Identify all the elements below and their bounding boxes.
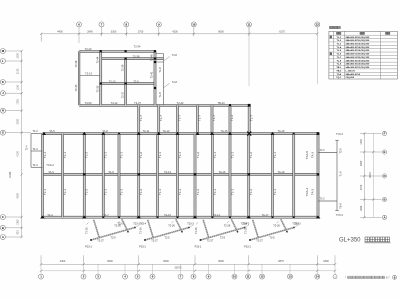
- small left room T2-3: [30, 134, 32, 168]
- svg-text:T2-5: T2-5: [110, 237, 116, 240]
- svg-text:TL-2: TL-2: [249, 189, 253, 195]
- svg-text:T2-5: T2-5: [220, 237, 226, 240]
- svg-text:3300: 3300: [111, 31, 117, 34]
- svg-text:T2-9: T2-9: [133, 79, 139, 83]
- svg-text:T23-3: T23-3: [292, 222, 299, 225]
- svg-text:8440: 8440: [369, 172, 372, 178]
- svg-text:T2-41: T2-41: [150, 71, 154, 78]
- svg-text:B: B: [2, 226, 4, 230]
- schedule table group labels: [330, 36, 332, 38]
- svg-text:TL-1: TL-1: [104, 189, 108, 195]
- top axis line down to plan (axis 11): [248, 27, 250, 86]
- bottom dimension line: [41, 263, 335, 265]
- svg-text:TL-2: TL-2: [139, 189, 143, 195]
- svg-text:TL-1: TL-1: [43, 189, 47, 195]
- svg-text:TL-1: TL-1: [158, 189, 162, 195]
- svg-text:TA-7: TA-7: [103, 213, 109, 217]
- svg-text:4100: 4100: [17, 151, 20, 157]
- svg-text:TL-1: TL-1: [119, 189, 123, 195]
- svg-text:TB-43: TB-43: [217, 101, 225, 105]
- svg-text:1750: 1750: [17, 99, 20, 105]
- svg-text:T3-12: T3-12: [111, 101, 118, 105]
- left axis grid circles: [0, 49, 5, 54]
- svg-text:TL-2: TL-2: [85, 189, 89, 195]
- svg-text:10: 10: [192, 22, 196, 26]
- main block top edge column blobs: [42, 132, 46, 135]
- svg-text:6600: 6600: [107, 260, 113, 263]
- svg-text:TA-15: TA-15: [221, 129, 228, 133]
- svg-text:TA-6: TA-6: [48, 170, 54, 174]
- svg-text:T2-45: T2-45: [74, 84, 78, 91]
- svg-text:TL-1: TL-1: [178, 152, 182, 158]
- bottom edge column blobs: [40, 216, 45, 219]
- svg-text:T3-37: T3-37: [134, 101, 141, 105]
- svg-text:2640: 2640: [87, 31, 93, 34]
- svg-text:T2-10: T2-10: [109, 79, 116, 83]
- svg-text:TA-5: TA-5: [49, 129, 55, 133]
- svg-text:240x500 6C18;C8@150: 240x500 6C18;C8@150: [346, 53, 370, 56]
- svg-text:240x400 4C14;C8@200: 240x400 4C14;C8@200: [346, 49, 370, 52]
- svg-text:T2-44: T2-44: [96, 56, 100, 63]
- svg-text:TL-9: TL-9: [336, 64, 341, 66]
- svg-text:TCA-4: TCA-4: [305, 187, 309, 196]
- title underline: [365, 242, 391, 244]
- svg-text:TA-3: TA-3: [311, 152, 315, 158]
- svg-text:TL-8: TL-8: [336, 60, 341, 62]
- svg-text:T2-37: T2-37: [120, 91, 124, 98]
- svg-text:TL-1: TL-1: [230, 152, 234, 158]
- schedule table title: [330, 26, 341, 29]
- svg-text:TL-7: TL-7: [178, 115, 182, 121]
- svg-text:T2-26: T2-26: [114, 225, 121, 228]
- main block mid beam TA-6/TA-9/TA-13: [43, 173, 319, 175]
- svg-text:TC5-3: TC5-3: [336, 214, 343, 217]
- svg-text:T2-28: T2-28: [86, 227, 89, 234]
- svg-text:TL-3: TL-3: [336, 43, 341, 45]
- svg-text:4300: 4300: [17, 193, 20, 199]
- svg-text:TL-4: TL-4: [336, 46, 341, 49]
- svg-text:T2-39: T2-39: [120, 64, 124, 71]
- svg-text:14: 14: [316, 275, 320, 279]
- svg-text:TL-1: TL-1: [230, 189, 234, 195]
- column line TL at x=100.7: [100, 51, 102, 105]
- svg-text:TA-17: TA-17: [262, 213, 269, 217]
- svg-text:TL-2: TL-2: [230, 115, 234, 121]
- svg-text:10: 10: [233, 275, 237, 279]
- svg-text:TCA: TCA: [337, 73, 342, 76]
- svg-text:T2-28: T2-28: [140, 227, 143, 234]
- svg-text:TL-2: TL-2: [139, 152, 143, 158]
- svg-text:TA-19: TA-19: [278, 170, 285, 174]
- svg-text:D: D: [383, 174, 385, 178]
- mid beam column blobs: [83, 173, 85, 175]
- main block top right corner column: [317, 132, 320, 135]
- upper block left wall beam: [78, 51, 80, 105]
- svg-text:TL-1: TL-1: [336, 37, 341, 39]
- svg-text:T2-40: T2-40: [150, 54, 154, 61]
- svg-text:6600: 6600: [218, 31, 224, 34]
- svg-text:4400: 4400: [57, 31, 63, 34]
- svg-text:T2-27: T2-27: [256, 240, 263, 243]
- svg-text:6-7: 6-7: [386, 276, 390, 279]
- svg-text:TL-8: TL-8: [158, 92, 162, 98]
- svg-text:TB-9: TB-9: [340, 203, 343, 209]
- svg-text:240x400 4C14;C8@200: 240x400 4C14;C8@200: [346, 63, 370, 66]
- svg-text:T23-3: T23-3: [133, 222, 140, 225]
- svg-text:T2-42: T2-42: [177, 101, 184, 105]
- svg-text:TL-1: TL-1: [213, 189, 217, 195]
- ramp group at x=91: [91, 228, 135, 241]
- svg-text:TC5-4: TC5-4: [336, 133, 343, 136]
- svg-text:TL-2: TL-2: [196, 189, 200, 195]
- main block left edge beam: [42, 134, 44, 218]
- svg-text:12: 12: [260, 275, 264, 279]
- svg-text:33075: 33075: [175, 267, 183, 270]
- beam T2-10 / T2-9: [101, 83, 155, 85]
- svg-text:240x400 4C14;C8@200: 240x400 4C14;C8@200: [346, 42, 370, 45]
- svg-text:6175: 6175: [279, 31, 285, 34]
- ramp group at x=145: [145, 228, 189, 241]
- svg-text:E: E: [384, 150, 386, 154]
- svg-text:6600: 6600: [163, 260, 169, 263]
- svg-text:2200: 2200: [17, 118, 20, 124]
- svg-text:TL-7: TL-7: [212, 115, 216, 121]
- top axis tick at leftmost grid: [40, 34, 42, 42]
- svg-text:T2-5: T2-5: [269, 237, 275, 240]
- svg-text:T2-5: T2-5: [164, 237, 170, 240]
- svg-text:2700: 2700: [138, 31, 144, 34]
- svg-text:P23-1: P23-1: [139, 246, 146, 249]
- svg-text:TL-1: TL-1: [178, 189, 182, 195]
- svg-text:TL-8: TL-8: [158, 67, 162, 73]
- beam T2-43/T2-34 upper block top edge: [79, 50, 156, 52]
- svg-text:T2-8: T2-8: [172, 54, 178, 57]
- svg-text:TL-1: TL-1: [273, 152, 277, 158]
- svg-text:240x300 4C12;C6@200: 240x300 4C12;C6@200: [346, 66, 370, 69]
- svg-text:1730: 1730: [360, 139, 363, 145]
- svg-text:TL-7: TL-7: [249, 115, 253, 121]
- svg-text:TA-13: TA-13: [164, 170, 171, 174]
- svg-text:TL-2: TL-2: [85, 152, 89, 158]
- bottom extra axis circle 1-1: [334, 264, 336, 274]
- svg-text:11000: 11000: [9, 171, 12, 178]
- svg-text:T2-28: T2-28: [195, 227, 198, 234]
- svg-text:T2-27: T2-27: [207, 240, 214, 243]
- svg-text:240x500 4C16;C8@200: 240x500 4C16;C8@200: [346, 36, 370, 39]
- upper block column blobs: [100, 50, 102, 52]
- svg-text:TB-1: TB-1: [336, 67, 342, 69]
- svg-text:TL-2: TL-2: [196, 152, 200, 158]
- svg-text:T23-3: T23-3: [187, 222, 194, 225]
- svg-text:TL-6: TL-6: [336, 54, 341, 56]
- right axis grid circles: [382, 131, 386, 135]
- svg-text:T2-26: T2-26: [224, 225, 231, 228]
- svg-text:T2-28: T2-28: [245, 227, 248, 234]
- svg-text:GL+350: GL+350: [339, 238, 361, 244]
- top axis grid circles: [77, 22, 82, 27]
- top axis line down (axis 12): [316, 27, 318, 84]
- main block interior vertical beams TL-1/TL-2: [62, 134, 64, 218]
- svg-text:TL-7: TL-7: [139, 115, 143, 121]
- connector vertical beams between upper block and main block: [138, 105, 140, 133]
- svg-text:B: B: [383, 198, 385, 202]
- svg-text:T2-34: T2-34: [134, 45, 141, 49]
- svg-text:TA-16: TA-16: [278, 129, 285, 133]
- left axis vertical dimension line: [21, 51, 23, 237]
- stair landing lines: [155, 53, 164, 55]
- svg-text:11: 11: [246, 275, 249, 279]
- svg-text:T2-4: T2-4: [26, 145, 29, 151]
- svg-text:T2-13: T2-13: [85, 72, 92, 76]
- svg-text:F: F: [384, 131, 386, 135]
- main block right edge beam: [317, 134, 319, 218]
- svg-text:T2-43: T2-43: [85, 47, 92, 51]
- svg-text:TL-1: TL-1: [104, 152, 108, 158]
- svg-text:920: 920: [17, 230, 20, 235]
- svg-text:T2-2: T2-2: [32, 129, 38, 133]
- right appendage rooms T2-3: [336, 140, 338, 210]
- right overall dimension line and text: [372, 133, 374, 217]
- svg-text:P23-1: P23-1: [195, 246, 202, 249]
- bottom overall dimension line: [41, 270, 335, 272]
- svg-text:TA-10: TA-10: [164, 213, 171, 217]
- svg-text:TA-11: TA-11: [143, 129, 150, 133]
- svg-text:TL-1: TL-1: [273, 189, 277, 195]
- svg-text:240x400 4C14;C8@200: 240x400 4C14;C8@200: [346, 46, 370, 49]
- svg-text:P23-1: P23-1: [244, 246, 251, 249]
- svg-text:TA-9: TA-9: [108, 170, 114, 174]
- beam T3-50/T3-12/T3-37/T2-42/TB-43 long bottom beam of upper block: [79, 104, 249, 106]
- svg-text:TL-1: TL-1: [63, 189, 67, 195]
- svg-text:TL-7: TL-7: [336, 57, 341, 59]
- svg-text:C8@200: C8@200: [346, 77, 355, 79]
- svg-text:2100: 2100: [17, 68, 20, 74]
- svg-text:TL-1: TL-1: [43, 152, 47, 158]
- svg-text:TA-4: TA-4: [47, 213, 53, 217]
- svg-text:TL-2: TL-2: [336, 40, 341, 42]
- svg-text:4400: 4400: [60, 260, 66, 263]
- svg-text:1000: 1000: [17, 53, 20, 59]
- svg-text:240x500 4C16;C8@200: 240x500 4C16;C8@200: [346, 39, 370, 42]
- svg-text:1080: 1080: [17, 219, 20, 225]
- column line at x=125.6: [125, 59, 127, 106]
- svg-text:TL-1: TL-1: [63, 152, 67, 158]
- svg-text:TB-2: TB-2: [336, 70, 342, 72]
- svg-text:T2-38: T2-38: [133, 54, 140, 58]
- svg-text:TL-6: TL-6: [340, 171, 343, 177]
- svg-text:TCA-3: TCA-3: [46, 163, 54, 167]
- svg-text:TA-16: TA-16: [219, 170, 226, 174]
- svg-text:T2-36: T2-36: [74, 60, 78, 67]
- svg-text:TL-1: TL-1: [119, 152, 123, 158]
- axis 11 big column node: [247, 132, 251, 136]
- svg-text:T2-3: T2-3: [32, 147, 38, 151]
- schedule table row lines: [329, 34, 398, 36]
- svg-text:L-150x10: L-150x10: [346, 70, 356, 72]
- svg-text:1800: 1800: [323, 260, 329, 263]
- svg-text:T2-26: T2-26: [273, 225, 280, 228]
- ramp group at x=200.5: [201, 228, 245, 241]
- svg-text:240x400 4C14;C8@200: 240x400 4C14;C8@200: [346, 59, 370, 62]
- main block bottom edge beam TA-4..TA-17: [43, 216, 319, 218]
- svg-text:TL-5: TL-5: [336, 50, 341, 52]
- svg-text:T2-9: T2-9: [340, 148, 343, 154]
- svg-text:TL-1: TL-1: [158, 152, 162, 158]
- svg-text:L: L: [2, 59, 4, 63]
- schedule table header: [337, 32, 341, 34]
- top dimension line: [41, 33, 317, 35]
- svg-text:T2-8: T2-8: [172, 81, 178, 84]
- svg-text:1600: 1600: [360, 205, 363, 211]
- svg-text:TL-2: TL-2: [249, 152, 253, 158]
- bottom axis grid circles: [40, 264, 42, 274]
- svg-text:T2-27: T2-27: [97, 240, 104, 243]
- svg-text:11: 11: [247, 22, 250, 26]
- svg-text:2390: 2390: [360, 160, 363, 166]
- svg-text:T2-35: T2-35: [96, 85, 100, 92]
- svg-text:2720: 2720: [360, 184, 363, 190]
- svg-text:T2-3: T2-3: [320, 197, 326, 200]
- thin wall x=163.5: [163, 54, 165, 106]
- svg-text:4200: 4200: [172, 31, 178, 34]
- svg-text:TL-1: TL-1: [213, 152, 217, 158]
- svg-text:TQ-1: TQ-1: [336, 77, 342, 79]
- beam T2-13 partition: [79, 75, 101, 77]
- svg-text:240x500 6C18;C8@150: 240x500 6C18;C8@150: [346, 56, 370, 59]
- svg-text:P23-1: P23-1: [85, 246, 92, 249]
- svg-text:TA-14: TA-14: [213, 213, 220, 217]
- svg-text:T2-3: T2-3: [32, 163, 38, 167]
- svg-text:240x400 4C14: 240x400 4C14: [346, 73, 361, 76]
- main block top edge beam TA-5..TA-16: [43, 133, 319, 135]
- svg-text:1150: 1150: [17, 84, 20, 90]
- svg-text:T2-3: T2-3: [320, 149, 326, 152]
- schedule table column lines: [332, 31, 334, 79]
- svg-text:T2-26: T2-26: [168, 225, 175, 228]
- schedule table frame: [329, 31, 398, 79]
- ramp group at x=250: [250, 228, 294, 241]
- svg-text:12: 12: [316, 22, 320, 26]
- svg-text:H: H: [2, 109, 4, 113]
- svg-text:TA-8: TA-8: [102, 129, 108, 133]
- svg-text:13: 13: [288, 275, 292, 279]
- column line at x=155: [154, 51, 156, 105]
- svg-text:TL-7: TL-7: [159, 115, 163, 121]
- svg-text:TCA-5: TCA-5: [305, 150, 309, 159]
- beam T2-38: [101, 58, 164, 60]
- svg-text:T3-50: T3-50: [85, 101, 92, 105]
- right axis vertical dimension line: [363, 133, 365, 217]
- svg-text:TL-7: TL-7: [198, 115, 202, 121]
- svg-text:T2-27: T2-27: [151, 240, 158, 243]
- svg-text:6600: 6600: [218, 260, 224, 263]
- svg-text:TA-12: TA-12: [163, 129, 170, 133]
- svg-text:6875: 6875: [278, 260, 284, 263]
- svg-text:TA-3: TA-3: [311, 189, 315, 195]
- beam T2-2 thin: [31, 133, 43, 135]
